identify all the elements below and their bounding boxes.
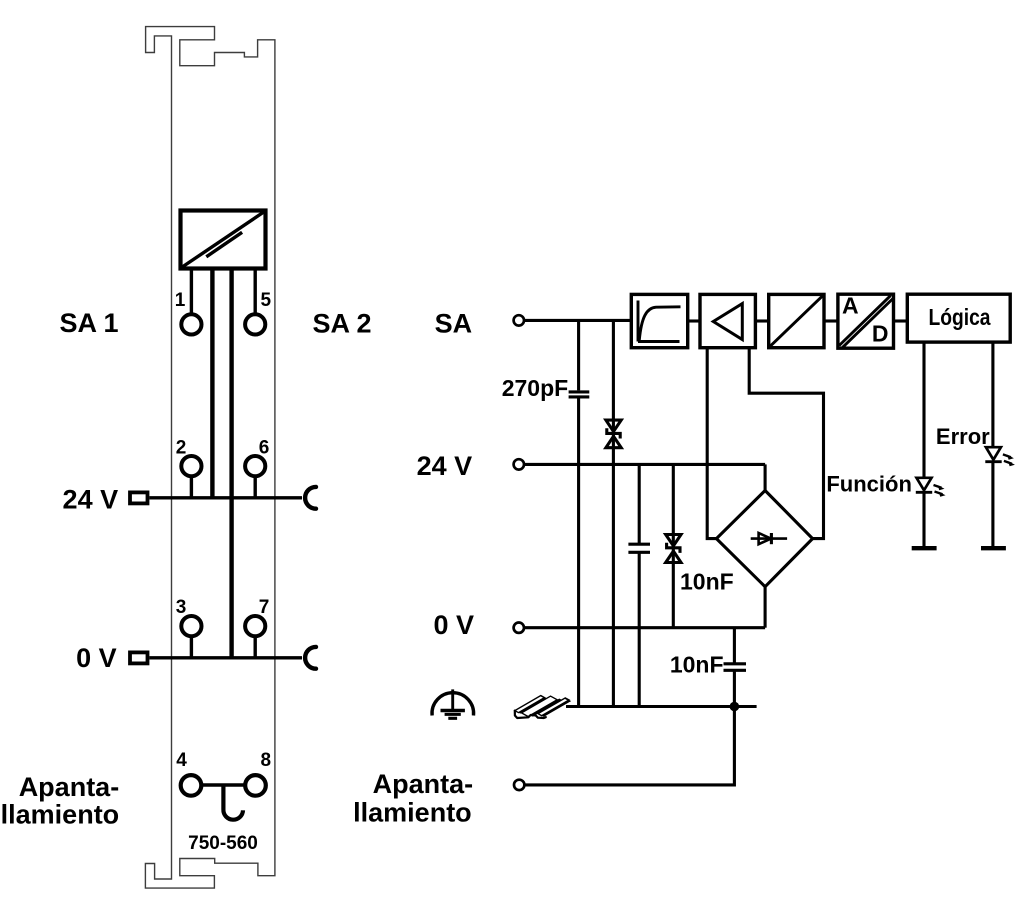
- junction dot shield node: [730, 702, 740, 712]
- svg-text:1: 1: [175, 290, 186, 311]
- terminal 4: [181, 775, 202, 796]
- TVS suppressor D2: [666, 535, 681, 563]
- svg-text:Función: Función: [826, 472, 912, 497]
- bridge rectifier diamond: [716, 491, 812, 587]
- svg-text:Error: Error: [936, 424, 990, 449]
- svg-text:SA 2: SA 2: [312, 309, 371, 339]
- wire comparator to isolation block: [755, 319, 768, 322]
- SA input terminal circle: [514, 315, 524, 325]
- svg-text:270pF: 270pF: [502, 375, 568, 401]
- wire 24V branch via TVS D2 to 0V rail: [672, 464, 675, 627]
- 0 V rail wire: [524, 626, 765, 629]
- continuation hook 0 V: [305, 647, 316, 669]
- svg-text:SA: SA: [435, 309, 473, 339]
- svg-text:llamiento: llamiento: [1, 800, 120, 830]
- DIN rail near-end profile edge: [515, 711, 546, 718]
- wire 24V rail to bridge top corner: [764, 464, 767, 490]
- wire SA rail: [524, 319, 631, 322]
- wire isolation to A/D: [824, 319, 839, 322]
- TVS suppressor D1: [606, 420, 621, 448]
- 0 V rail (left): [149, 656, 302, 659]
- terminal 2: [181, 456, 201, 498]
- wire SA branch to shield via TVS D1: [612, 320, 615, 706]
- svg-text:Apanta-: Apanta-: [19, 772, 120, 802]
- svg-text:10nF: 10nF: [680, 569, 734, 595]
- capacitor 270pF plates: [569, 392, 590, 397]
- shield rail wire: [566, 705, 757, 708]
- svg-text:llamiento: llamiento: [353, 798, 472, 828]
- svg-text:3: 3: [176, 597, 187, 618]
- Error LED terminal bar: [981, 546, 1006, 550]
- svg-text:24 V: 24 V: [417, 451, 473, 481]
- svg-text:8: 8: [261, 750, 272, 771]
- svg-text:24 V: 24 V: [63, 484, 119, 514]
- filter block (input curve): [631, 294, 687, 347]
- 24 V terminal circle: [514, 459, 524, 469]
- DIN rail symbol (3D): [515, 690, 571, 722]
- wire 0V branch via capacitor 10nF to shield junction: [733, 628, 736, 664]
- Función LED terminal bar: [912, 546, 937, 550]
- logic block Lógica: [907, 294, 1010, 342]
- svg-text:7: 7: [259, 597, 270, 618]
- svg-text:750-560: 750-560: [188, 833, 258, 854]
- svg-text:4: 4: [176, 750, 187, 771]
- wire filter to comparator: [688, 319, 700, 322]
- svg-text:6: 6: [259, 438, 270, 459]
- functional earth symbol: [432, 689, 474, 718]
- shield terminal circle: [514, 780, 524, 790]
- logic output wire to Error LED: [991, 342, 994, 548]
- continuation hook 24 V: [305, 487, 316, 509]
- shield link terminal 4-8 with drain hook: [202, 785, 245, 820]
- internal bus wire 1 (to 24V rail): [210, 269, 214, 498]
- wire bridge bottom corner to 0V rail: [764, 587, 767, 628]
- terminal 6: [245, 456, 265, 498]
- internal bus wire 2 (to 0V rail): [229, 269, 233, 658]
- svg-text:Apanta-: Apanta-: [373, 769, 474, 799]
- wire comparator stub to bridge left corner: [707, 348, 716, 539]
- svg-text:SA 1: SA 1: [59, 308, 118, 338]
- svg-text:2: 2: [176, 438, 187, 459]
- capacitor C3 10nF plates: [724, 664, 747, 671]
- capacitor C2 plates: [628, 544, 650, 552]
- terminal 1: [181, 269, 201, 335]
- 24 V external connector box: [130, 492, 148, 503]
- 0 V terminal circle: [514, 623, 524, 633]
- wire A/D to logic: [894, 319, 908, 322]
- LED Error: [985, 447, 1015, 466]
- svg-text:0 V: 0 V: [433, 610, 474, 640]
- 0 V external connector box: [130, 652, 148, 663]
- shield wire to junction: [524, 707, 734, 785]
- comparator block (triangle): [700, 294, 755, 347]
- LED Función: [916, 478, 946, 497]
- logic output wire to Función LED: [922, 342, 925, 548]
- svg-text:5: 5: [261, 290, 272, 311]
- terminal 8: [245, 775, 266, 796]
- diode inside bridge: [751, 533, 787, 544]
- A/D converter block: [838, 294, 894, 348]
- module outline 750-560 housing: [145, 27, 275, 889]
- terminal 3: [181, 616, 201, 658]
- svg-text:D: D: [872, 320, 889, 346]
- terminal 5: [245, 269, 265, 335]
- svg-text:A: A: [842, 293, 859, 319]
- supply module symbol U1 (box with diagonal): [181, 211, 266, 269]
- 24 V rail wire: [524, 463, 765, 466]
- wire 24V branch via capacitor to shield rail: [638, 464, 641, 544]
- wire comparator stub to bridge right corner: [749, 348, 823, 539]
- svg-text:Lógica: Lógica: [929, 304, 991, 330]
- 24 V rail (left): [149, 496, 302, 499]
- wire SA branch to shield via 270pF: [577, 320, 580, 390]
- svg-text:10nF: 10nF: [670, 651, 724, 677]
- terminal 7: [245, 616, 265, 658]
- svg-text:0 V: 0 V: [76, 643, 117, 673]
- isolation block (diagonal): [769, 294, 824, 347]
